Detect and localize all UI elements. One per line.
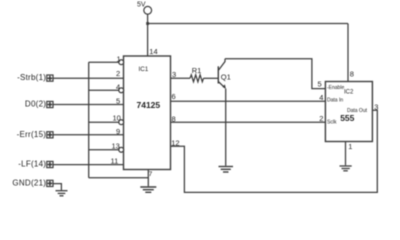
svg-text:8: 8 bbox=[350, 70, 354, 79]
svg-text:Data Out: Data Out bbox=[347, 108, 368, 114]
svg-text:12: 12 bbox=[171, 138, 179, 147]
svg-text:10: 10 bbox=[113, 114, 121, 123]
svg-text:5: 5 bbox=[318, 80, 322, 89]
wire GND to ground bbox=[53, 184, 61, 191]
svg-text:IC2: IC2 bbox=[344, 90, 354, 96]
svg-text:1: 1 bbox=[117, 55, 121, 64]
wire 5V circle to IC1 pin 14 bbox=[147, 14, 149, 56]
svg-text:4: 4 bbox=[116, 82, 120, 91]
ground for GND(21) bbox=[56, 191, 68, 196]
IC U2 555 body bbox=[325, 82, 372, 142]
svg-text:5: 5 bbox=[116, 97, 120, 106]
svg-text:4: 4 bbox=[319, 93, 323, 102]
wire -Strb to IC1 pin 2 bbox=[53, 77, 124, 79]
svg-text:6: 6 bbox=[172, 92, 176, 101]
ground for IC1 pin 7 bbox=[140, 187, 156, 192]
svg-text:3: 3 bbox=[172, 70, 176, 79]
wire IC1 pin 6 to IC2 pin 4 bbox=[171, 100, 326, 102]
svg-text:R1: R1 bbox=[192, 66, 202, 75]
svg-text:-Err(15): -Err(15) bbox=[17, 130, 47, 139]
IC1 pin 10 stub bbox=[89, 121, 119, 123]
connector pin -LF(14) bbox=[47, 161, 53, 167]
svg-text:-LF(14): -LF(14) bbox=[18, 160, 46, 169]
wire IC1 pin 8 to IC2 pin 2 bbox=[171, 121, 326, 123]
connector pin D0(2) bbox=[47, 101, 53, 107]
wire -LF to IC1 pin 11 bbox=[53, 164, 124, 166]
IC1 pin 1 stub bbox=[89, 61, 119, 63]
wire IC1 pin 3 to R1 bbox=[171, 77, 191, 79]
svg-text:D0(2): D0(2) bbox=[25, 100, 46, 109]
svg-text:5V: 5V bbox=[137, 1, 146, 8]
svg-text:74125: 74125 bbox=[137, 100, 161, 110]
svg-text:7: 7 bbox=[149, 171, 153, 178]
svg-text:8: 8 bbox=[172, 114, 176, 123]
wire -Err to IC1 pin 9 bbox=[53, 134, 124, 136]
wire Q1 emitter down bbox=[225, 89, 227, 166]
transistor Q1 bbox=[218, 59, 226, 89]
IC1 pin 13 bubble bbox=[119, 147, 124, 152]
IC1 pin 4 stub bbox=[89, 89, 119, 91]
IC1 pin 10 bubble bbox=[119, 120, 124, 125]
svg-text:1: 1 bbox=[348, 142, 352, 151]
connector pin -Strb(1) bbox=[47, 75, 53, 81]
svg-text:IC1: IC1 bbox=[139, 66, 149, 73]
wire IC2 pin 1 to ground bbox=[345, 142, 347, 166]
wire IC1 pin 12 to bottom rail bbox=[171, 110, 378, 192]
svg-text:-Strb(1): -Strb(1) bbox=[17, 73, 46, 82]
svg-text:Data In: Data In bbox=[327, 97, 343, 103]
svg-text:2: 2 bbox=[116, 69, 120, 78]
junction at 5V branch bbox=[146, 22, 149, 25]
wire R1 to Q1 base bbox=[203, 77, 218, 79]
resistor R1 bbox=[190, 75, 204, 82]
svg-text:11: 11 bbox=[111, 157, 119, 166]
svg-text:555: 555 bbox=[340, 113, 354, 123]
IC1 pin 7 wire to ground bbox=[147, 170, 149, 187]
power 5V bbox=[144, 6, 152, 14]
connector pin GND(21) bbox=[47, 180, 53, 186]
wire 5V rail down to IC2 pin 8 bbox=[347, 24, 349, 82]
svg-text:14: 14 bbox=[149, 47, 157, 56]
wire D0 to IC1 pin 5 bbox=[53, 104, 124, 106]
wire Q1 collector to IC2 -Enable bbox=[225, 59, 325, 89]
svg-text:3: 3 bbox=[374, 103, 378, 112]
svg-text:2: 2 bbox=[319, 114, 323, 123]
svg-text:Q1: Q1 bbox=[221, 73, 231, 82]
svg-text:GND(21): GND(21) bbox=[12, 179, 46, 188]
IC1 pin 13 stub bbox=[89, 149, 119, 151]
ground for IC2 pin 1 bbox=[340, 166, 352, 171]
svg-text:9: 9 bbox=[116, 127, 120, 136]
wire enable bus vertical bbox=[88, 62, 90, 178]
wire enable bus to IC1 ground bbox=[89, 177, 149, 179]
svg-text:-Enable: -Enable bbox=[327, 85, 344, 91]
wire 5V rail top horizontal bbox=[148, 23, 348, 25]
IC1 pin 1 bubble bbox=[119, 60, 124, 65]
IC U1 74125 body bbox=[124, 56, 171, 170]
ground for Q1 emitter bbox=[219, 167, 234, 173]
connector pin -Err(15) bbox=[47, 132, 53, 138]
svg-text:13: 13 bbox=[112, 142, 120, 151]
IC1 pin 4 bubble bbox=[119, 88, 124, 93]
svg-text:Sclk: Sclk bbox=[327, 119, 337, 125]
